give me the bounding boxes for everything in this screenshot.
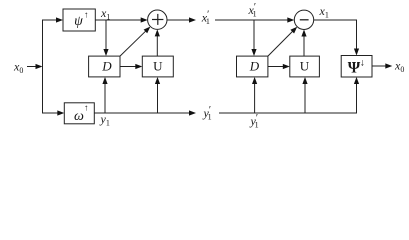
svg-text:↓: ↓ — [360, 58, 365, 69]
svg-text:ψ: ψ — [74, 14, 83, 29]
wire D right diagonal to subtractor — [268, 27, 297, 56]
wire branch to omega-up — [42, 110, 64, 115]
wire bottom branch up to U right — [302, 77, 307, 113]
block U left — [142, 56, 173, 77]
wire x1 branch down to D left — [103, 20, 108, 56]
svg-text:y′1: y′1 — [203, 105, 212, 122]
wire input branch vertical — [42, 20, 44, 113]
wire U left up to adder — [155, 29, 160, 56]
wire D left to U left — [120, 64, 142, 69]
svg-text:x′1: x′1 — [248, 2, 257, 19]
svg-text:↑: ↑ — [84, 103, 89, 113]
wire U right up to subtractor — [301, 30, 306, 57]
wire bottom branch up to U left — [155, 77, 160, 113]
adder plus circle — [148, 10, 167, 29]
svg-text:x0: x0 — [394, 59, 404, 75]
wire branch to psi-up — [42, 17, 63, 22]
svg-text:x′1: x′1 — [201, 10, 210, 27]
svg-text:Ψ: Ψ — [348, 60, 361, 77]
wire psi-up to adder — [95, 17, 147, 22]
svg-text:U: U — [300, 59, 310, 74]
block D right — [237, 56, 268, 77]
svg-text:x1: x1 — [100, 6, 110, 22]
block U right — [290, 56, 320, 77]
wire bottom branch up to D right — [252, 77, 257, 113]
svg-text:U: U — [153, 59, 163, 74]
svg-text:y′1: y′1 — [250, 113, 259, 130]
block D left — [89, 56, 120, 77]
wire bottom branch up to D left — [102, 77, 107, 113]
block psi-up — [63, 9, 95, 31]
wire D left diagonal to adder — [120, 27, 150, 57]
svg-text:x0: x0 — [13, 60, 23, 76]
subtractor minus circle — [294, 10, 313, 29]
svg-text:D: D — [101, 59, 112, 74]
wire D right to U right — [268, 64, 290, 69]
svg-text:D: D — [249, 59, 260, 74]
svg-text:x1: x1 — [319, 4, 329, 20]
wire x1' to subtractor — [215, 17, 294, 22]
wire x1' branch down to D right — [251, 20, 256, 56]
svg-text:y1: y1 — [100, 112, 110, 128]
wire y1' bottom rail right to psi-down — [219, 77, 359, 113]
wire x0 input arrow — [27, 64, 43, 69]
wire omega-up to y1' output — [94, 110, 196, 115]
wire subtractor to psi-down — [314, 20, 359, 56]
svg-text:↑: ↑ — [84, 10, 89, 20]
svg-text:ω: ω — [74, 109, 84, 124]
block psi-down — [341, 56, 372, 78]
wire adder output to x1' — [167, 17, 196, 22]
wire psi-down output — [373, 63, 393, 68]
block omega-up — [64, 103, 94, 125]
